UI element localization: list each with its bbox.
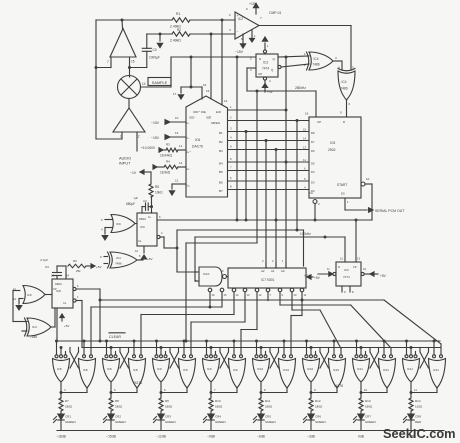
cc bubble xyxy=(309,191,320,220)
svg-text:R10: R10 xyxy=(215,399,221,403)
svg-text:Q̄: Q̄ xyxy=(271,68,274,72)
node B3 junction xyxy=(275,148,278,151)
svg-text:6: 6 xyxy=(164,388,166,392)
svg-text:1: 1 xyxy=(77,295,79,299)
svg-text:9601: 9601 xyxy=(55,282,62,286)
wire Q to XOR xyxy=(278,56,309,57)
wire C3 link xyxy=(130,34,147,68)
svg-text:74278: 74278 xyxy=(133,381,142,385)
wire B4 line xyxy=(228,157,309,162)
svg-text:7474: 7474 xyxy=(343,275,350,279)
wire CP loop xyxy=(247,68,256,91)
svg-text:Vₖ⁻: Vₖ⁻ xyxy=(186,167,191,171)
svg-text:9: 9 xyxy=(246,7,248,11)
node pin16 junction xyxy=(190,86,193,89)
nor gate IC10 left xyxy=(303,355,320,382)
op-amp IC1a xyxy=(107,29,136,65)
svg-text:D0: D0 xyxy=(341,192,345,196)
svg-text:16: 16 xyxy=(305,112,309,116)
LED CR3 xyxy=(154,411,176,430)
svg-text:R14: R14 xyxy=(415,399,421,403)
wire latch 3 outputs xyxy=(160,382,188,398)
svg-text:1: 1 xyxy=(230,105,232,109)
svg-text:IC4: IC4 xyxy=(314,57,319,61)
svg-text:IC7 9301: IC7 9301 xyxy=(261,278,275,282)
wire latch 4 rail stubs xyxy=(205,340,236,355)
svg-text:Vₗ₄: Vₗ₄ xyxy=(186,184,190,188)
svg-text:13: 13 xyxy=(357,257,361,261)
SAR IC5 2502 xyxy=(303,111,361,199)
svg-text:R4: R4 xyxy=(166,160,170,164)
svg-text:Cₖ: Cₖ xyxy=(148,215,152,219)
wire bus vertical x276 xyxy=(275,150,277,269)
svg-text:14: 14 xyxy=(142,82,146,86)
svg-text:10: 10 xyxy=(294,293,297,297)
wire R2 to DAC IOE xyxy=(210,34,212,99)
wire latch 2 outputs xyxy=(110,382,138,398)
label AUDIO INPUT xyxy=(119,157,131,166)
wire or to 9601 xyxy=(45,294,52,296)
svg-text:R2: R2 xyxy=(177,28,181,32)
LED CR1 xyxy=(54,411,76,430)
svg-text:CMP-01: CMP-01 xyxy=(269,11,282,15)
svg-text:CR8: CR8 xyxy=(415,415,421,419)
resistor R7 xyxy=(59,398,73,411)
svg-text:INPUT: INPUT xyxy=(119,162,131,166)
xor gate IC4a 7486 xyxy=(304,52,337,70)
svg-text:R7: R7 xyxy=(65,399,69,403)
svg-text:6: 6 xyxy=(77,284,79,288)
nor gate IC9 right xyxy=(179,355,196,388)
nor gate IC11 right xyxy=(379,355,396,388)
pin 15 label xyxy=(206,89,210,93)
power +15V xyxy=(249,2,259,14)
svg-text:−6dB: −6dB xyxy=(257,435,266,439)
wire clear rail 2 xyxy=(82,347,440,349)
wire decoder out 9 to latch xyxy=(280,292,391,355)
svg-text:IC11: IC11 xyxy=(357,367,363,371)
wire nand in1 route xyxy=(177,230,304,272)
pin 16 wire xyxy=(181,83,207,99)
xor gate IC4d 7486 xyxy=(22,318,51,339)
svg-text:R6: R6 xyxy=(73,259,77,263)
svg-text:11: 11 xyxy=(303,158,306,162)
svg-text:11: 11 xyxy=(179,144,182,148)
wire D0 serial out xyxy=(341,192,367,211)
svg-text:180Ω: 180Ω xyxy=(365,405,373,409)
wire latch 1 cross coupling xyxy=(70,348,79,369)
node x297 bottom xyxy=(296,229,299,232)
svg-text:IC4: IC4 xyxy=(342,80,347,84)
svg-text:680μF: 680μF xyxy=(126,202,135,206)
svg-text:R5: R5 xyxy=(155,185,159,189)
svg-text:3: 3 xyxy=(229,28,231,32)
capacitor C3 timing xyxy=(40,258,62,279)
svg-text:6: 6 xyxy=(349,102,351,106)
svg-text:1: 1 xyxy=(254,34,256,38)
pin 14 label xyxy=(224,99,228,103)
svg-text:8: 8 xyxy=(139,254,141,258)
svg-text:D5: D5 xyxy=(311,162,315,166)
svg-text:1000μF: 1000μF xyxy=(149,56,160,60)
svg-text:DAC76: DAC76 xyxy=(192,145,203,149)
wire op-amp output xyxy=(121,20,124,29)
svg-text:SB/EN: SB/EN xyxy=(211,121,220,125)
svg-text:R11: R11 xyxy=(265,399,271,403)
label &#8722;6dB xyxy=(257,435,266,439)
wire to op-amp input xyxy=(96,57,111,68)
node Q-ED junction xyxy=(285,56,288,59)
DAC IC6 DAC76 body xyxy=(186,96,228,197)
svg-text:E/D: E/D xyxy=(216,110,222,114)
svg-text:B1: B1 xyxy=(219,131,223,135)
nor gate IC9 right xyxy=(229,355,246,388)
svg-text:5: 5 xyxy=(230,157,232,161)
svg-text:9: 9 xyxy=(344,290,346,294)
wire mixer to opamp2 xyxy=(128,99,130,109)
svg-text:3: 3 xyxy=(262,259,264,263)
svg-text:5: 5 xyxy=(114,388,116,392)
svg-text:1: 1 xyxy=(282,259,284,263)
svg-text:1: 1 xyxy=(267,44,269,48)
svg-text:IC2: IC2 xyxy=(238,17,243,21)
svg-text:2.49kΩ: 2.49kΩ xyxy=(170,39,181,43)
svg-text:9: 9 xyxy=(282,293,284,297)
wire decoder out 7 xyxy=(267,292,269,301)
decoder output bubble pin 15 xyxy=(220,288,227,297)
svg-text:2: 2 xyxy=(230,116,232,120)
wire latch 2 rail stubs xyxy=(105,340,136,355)
nor gate IC8 left xyxy=(53,355,70,382)
svg-text:IC9: IC9 xyxy=(140,225,145,229)
wire or to 9602 xyxy=(135,223,137,225)
svg-text:14: 14 xyxy=(303,137,307,141)
wire op-amp in2 stub xyxy=(129,57,131,77)
decoder output bubble pin 14 xyxy=(232,288,239,297)
node clock branch xyxy=(256,90,259,93)
nor gate IC9 left xyxy=(203,355,220,382)
wire sample line xyxy=(141,57,257,87)
svg-text:18.94kΩ: 18.94kΩ xyxy=(160,154,173,158)
wire A1 stub xyxy=(271,259,276,273)
LED CR2 xyxy=(104,411,126,430)
wire clock to SAR CP xyxy=(315,91,317,117)
node 100k junction xyxy=(324,236,327,239)
svg-text:15: 15 xyxy=(303,128,307,132)
svg-text:Q: Q xyxy=(273,57,276,61)
svg-text:180Ω: 180Ω xyxy=(215,405,223,409)
svg-text:V−: V− xyxy=(186,121,190,125)
svg-text:+: + xyxy=(237,14,239,18)
wire SB/EN line xyxy=(228,116,309,121)
svg-text:4: 4 xyxy=(64,388,66,392)
node x186 rail junction xyxy=(185,340,188,343)
svg-text:CP: CP xyxy=(53,287,57,291)
svg-text:GREEN: GREEN xyxy=(115,420,126,424)
svg-text:10: 10 xyxy=(366,177,370,181)
svg-text:3: 3 xyxy=(230,127,232,131)
nor gate IC11 left xyxy=(403,355,420,382)
op-amp IC1b xyxy=(113,108,145,139)
svg-text:14: 14 xyxy=(236,293,239,297)
svg-text:IC10: IC10 xyxy=(307,367,313,371)
svg-text:12: 12 xyxy=(175,179,179,183)
svg-text:D4: D4 xyxy=(311,170,315,174)
svg-text:V−: V− xyxy=(186,136,190,140)
wire xor b out xyxy=(347,100,351,117)
svg-text:7486: 7486 xyxy=(115,262,122,266)
svg-text:6: 6 xyxy=(159,215,161,219)
label &#8722;3dB xyxy=(307,435,316,439)
svg-text:IC8: IC8 xyxy=(107,367,112,371)
svg-text:10: 10 xyxy=(135,249,138,253)
decoder output bubble pin 16 xyxy=(208,288,215,307)
resistor R2 xyxy=(170,28,190,43)
svg-text:280kHz: 280kHz xyxy=(295,86,306,90)
node qbar-nand junction xyxy=(176,247,179,250)
wire B7 line xyxy=(228,185,309,190)
svg-text:+5V: +5V xyxy=(314,276,321,280)
svg-text:13: 13 xyxy=(247,293,250,297)
resistor R3 xyxy=(159,144,186,158)
wire B2 line xyxy=(228,136,309,141)
node R2-ground junction xyxy=(159,33,162,36)
svg-text:15: 15 xyxy=(206,89,210,93)
svg-text:B2: B2 xyxy=(219,140,223,144)
xor gate IC4b 7486 xyxy=(338,69,355,101)
label 74278 right xyxy=(334,384,343,388)
wire bus vertical x266 xyxy=(265,141,267,269)
clear stub 9602 xyxy=(135,246,154,261)
node feedback branch xyxy=(95,66,98,69)
label +3dB xyxy=(407,435,416,439)
svg-text:GREEN: GREEN xyxy=(315,420,326,424)
svg-text:7486: 7486 xyxy=(341,87,348,91)
wire bus vertical x246 xyxy=(245,132,247,221)
node pin11 junction xyxy=(355,219,358,222)
svg-text:−15V: −15V xyxy=(151,121,160,125)
svg-text:3: 3 xyxy=(250,68,252,72)
svg-text:9: 9 xyxy=(340,111,342,115)
svg-text:D: D xyxy=(343,120,346,124)
svg-text:7474: 7474 xyxy=(262,67,269,71)
resistor R1 xyxy=(170,12,190,29)
label +10.000V xyxy=(141,143,170,151)
svg-text:16: 16 xyxy=(203,83,207,87)
label &#8722;18dB xyxy=(56,435,66,439)
svg-text:4.7μF: 4.7μF xyxy=(40,258,48,262)
svg-text:IC9: IC9 xyxy=(207,367,212,371)
svg-text:IC11: IC11 xyxy=(407,367,413,371)
wire latch 1 outputs xyxy=(60,382,88,398)
svg-text:11: 11 xyxy=(327,267,330,271)
svg-text:IC8: IC8 xyxy=(56,289,61,293)
svg-text:IC11: IC11 xyxy=(433,368,439,372)
resistor R11 xyxy=(259,398,273,411)
svg-text:CP: CP xyxy=(258,72,262,76)
svg-text:CR3: CR3 xyxy=(165,415,171,419)
wire x186 line xyxy=(186,243,257,341)
node cc junction xyxy=(314,219,317,222)
svg-text:R13: R13 xyxy=(365,399,371,403)
wire Q fan line xyxy=(100,300,441,355)
svg-text:8: 8 xyxy=(230,185,232,189)
svg-text:−15dB: −15dB xyxy=(106,435,116,439)
decoder IC7 9301 xyxy=(228,268,306,288)
svg-text:IC10: IC10 xyxy=(257,367,263,371)
wire decoder out 13 to latch xyxy=(191,292,245,355)
svg-text:−3dB: −3dB xyxy=(307,435,316,439)
svg-text:B5: B5 xyxy=(219,170,223,174)
wire latch 5 rail stubs xyxy=(255,340,286,355)
wire bus vertical x257 xyxy=(256,91,258,243)
wire latch 7 cross coupling xyxy=(370,348,379,369)
node x276 junction xyxy=(275,219,278,222)
svg-text:9: 9 xyxy=(230,145,232,149)
label -15V pin13 xyxy=(151,131,186,140)
svg-text:IC4: IC4 xyxy=(116,256,121,260)
svg-text:IC4: IC4 xyxy=(32,325,37,329)
node x237 bottom xyxy=(236,219,239,222)
nand output bubble xyxy=(222,269,228,279)
wire decoder out 15 to latch xyxy=(91,292,222,355)
mixer Q1 sample switch xyxy=(118,76,146,99)
wire latch 5 outputs xyxy=(260,382,288,398)
nor gate IC8 right xyxy=(129,355,146,388)
svg-text:17: 17 xyxy=(173,92,177,96)
svg-text:R1: R1 xyxy=(176,12,180,16)
svg-text:IC9: IC9 xyxy=(27,293,32,297)
svg-text:D: D xyxy=(338,265,340,269)
svg-text:+5V: +5V xyxy=(96,265,103,269)
wire latch 7 outputs xyxy=(360,382,388,398)
LED CR8 xyxy=(404,411,423,430)
capacitor C3 xyxy=(142,48,160,60)
ground or gate b xyxy=(16,299,23,311)
resistor R13 xyxy=(359,398,373,411)
label -15V pin10 xyxy=(151,116,186,125)
one-shot IC8 9601 xyxy=(51,274,73,309)
svg-text:D6: D6 xyxy=(311,149,315,153)
wire R5 down xyxy=(151,197,153,213)
comparator IC2 CMP-01 xyxy=(229,7,282,39)
node B1 junction xyxy=(245,130,248,133)
wire pin16 up xyxy=(190,57,192,87)
flip-flop IC3b 7474 xyxy=(336,257,361,287)
svg-text:8: 8 xyxy=(352,290,354,294)
svg-text:−15V: −15V xyxy=(235,50,244,54)
decoder output bubble pin 9 xyxy=(278,288,283,297)
wire or input loop xyxy=(13,291,27,322)
wire comparator output xyxy=(259,26,351,71)
resistor R5 xyxy=(149,184,163,197)
VLC ground pin12 xyxy=(169,179,186,196)
wire latch 4 cross coupling xyxy=(220,348,229,369)
svg-text:7486: 7486 xyxy=(313,63,320,67)
node R2-DAC junction xyxy=(210,33,213,36)
wire latch 3 rail stubs xyxy=(155,340,186,355)
wire xor c out xyxy=(137,254,143,260)
svg-text:C3: C3 xyxy=(153,48,157,52)
svg-text:4: 4 xyxy=(101,228,103,232)
svg-text:5: 5 xyxy=(101,218,103,222)
svg-text:2: 2 xyxy=(272,259,274,263)
svg-text:CR7: CR7 xyxy=(365,415,371,419)
svg-text:7: 7 xyxy=(107,60,109,64)
svg-text:CR2: CR2 xyxy=(115,415,121,419)
svg-text:D7: D7 xyxy=(311,140,315,144)
capacitor C2 xyxy=(126,196,152,213)
svg-text:180Ω: 180Ω xyxy=(315,405,323,409)
node SB junction xyxy=(296,119,299,122)
svg-text:11: 11 xyxy=(304,293,307,297)
label &#8722;15dB xyxy=(106,435,116,439)
wire 9602 Q out xyxy=(159,215,161,219)
svg-text:IC9: IC9 xyxy=(157,367,162,371)
svg-text:14: 14 xyxy=(224,99,228,103)
label -1V node xyxy=(130,170,151,184)
decoder output bubble pin 10 xyxy=(290,288,297,297)
resistor R10 xyxy=(209,398,223,411)
svg-text:15: 15 xyxy=(131,60,135,64)
svg-text:GREEN: GREEN xyxy=(65,420,76,424)
decoder output bubble pin 13 xyxy=(243,288,250,297)
resistor R9 xyxy=(159,398,173,411)
resistor R12 xyxy=(309,398,323,411)
svg-text:180Ω: 180Ω xyxy=(165,405,173,409)
svg-text:180Ω: 180Ω xyxy=(115,405,123,409)
svg-text:13: 13 xyxy=(303,146,307,150)
svg-text:B7: B7 xyxy=(219,189,223,193)
node ED junction xyxy=(285,109,288,112)
or gate IC9a xyxy=(101,215,135,233)
power +5V IC3b right xyxy=(370,272,387,278)
svg-text:CLEAR: CLEAR xyxy=(109,335,121,339)
svg-text:8: 8 xyxy=(264,388,266,392)
node q rail junction xyxy=(99,340,102,343)
svg-text:+15V: +15V xyxy=(249,2,258,6)
svg-text:CP: CP xyxy=(317,120,321,124)
watermark xyxy=(383,426,456,441)
wire B6 line xyxy=(228,176,309,181)
wire decoder out 12 to latch xyxy=(241,292,257,355)
wire latch 3 cross coupling xyxy=(170,348,179,369)
svg-text:−9dB: −9dB xyxy=(207,435,216,439)
label CLEAR xyxy=(109,333,125,339)
svg-text:IOĒ: IOĒ xyxy=(206,116,211,120)
svg-text:R8: R8 xyxy=(115,399,119,403)
qbar bubble 9602 xyxy=(157,231,177,248)
svg-text:180Ω: 180Ω xyxy=(265,405,273,409)
label SAMPLE xyxy=(148,78,171,86)
wire latch 8 rail stubs xyxy=(405,340,436,355)
wire xor a out xyxy=(333,61,354,70)
svg-text:GREEN: GREEN xyxy=(215,420,226,424)
decoder output bubble pin 12 xyxy=(255,288,262,297)
wire bus vertical x297 xyxy=(296,121,298,231)
svg-text:2: 2 xyxy=(318,202,320,206)
power +5V IC7 xyxy=(306,275,321,280)
LED CR5 xyxy=(254,411,276,430)
svg-text:74278: 74278 xyxy=(334,384,343,388)
wire clear rail 1 xyxy=(57,340,440,342)
svg-text:9602: 9602 xyxy=(139,217,146,221)
wire latch 6 cross coupling xyxy=(320,348,329,369)
svg-text:14: 14 xyxy=(66,274,69,278)
svg-text:IC3: IC3 xyxy=(263,61,268,65)
node B2 junction xyxy=(265,139,268,142)
svg-text:IC9: IC9 xyxy=(116,222,121,226)
